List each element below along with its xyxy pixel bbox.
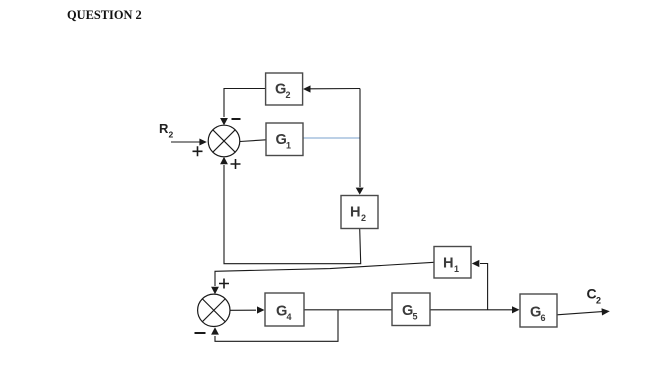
summing junction S2 [198, 294, 230, 326]
block G6 [520, 294, 557, 327]
wire G6 output to C2 [557, 312, 603, 315]
sign minus at S2 bottom input [195, 332, 206, 334]
wire vertical node X down to H2 [359, 89, 361, 188]
svg-text:H: H [443, 256, 454, 272]
arrowhead into H2 top [356, 188, 364, 195]
sign plus at S2 top input [219, 279, 229, 289]
wire from node X (x=360) left into G2 [310, 88, 360, 90]
arrowhead into H1 right [472, 260, 480, 267]
wire G1 output (blue) to node X [304, 137, 361, 139]
arrowhead output C2 [602, 308, 610, 315]
arrowhead into G4 left [257, 306, 265, 313]
svg-text:2: 2 [361, 213, 366, 223]
sign plus at S1 bottom input [231, 159, 241, 169]
wire G4 output to G5 [304, 309, 392, 311]
wire S1 to G1 [240, 140, 266, 142]
svg-text:4: 4 [287, 312, 292, 322]
block H2 [341, 196, 378, 229]
block G5 [392, 293, 430, 326]
wire H1 output left then down into S2 top [215, 262, 434, 286]
wire R2 input to summing junction S1 [171, 141, 200, 143]
sign plus at S1 left input [193, 146, 203, 156]
block G1 [266, 123, 303, 156]
summing junction S1 [208, 125, 240, 157]
svg-text:2: 2 [286, 90, 291, 100]
svg-text:2: 2 [596, 295, 601, 305]
arrowhead into S1 left [199, 139, 206, 146]
wire G5 output to G6 [430, 309, 513, 311]
arrowhead into S1 bottom [220, 157, 228, 164]
arrowhead into S1 top [220, 118, 228, 125]
svg-text:H: H [350, 205, 361, 221]
svg-text:2: 2 [169, 129, 174, 139]
wire tap up to H1 input [480, 264, 488, 310]
block H1 [434, 247, 471, 279]
svg-text:1: 1 [286, 140, 291, 150]
wire H2 output down, left, up into S1 bottom [224, 165, 361, 264]
svg-text:5: 5 [413, 311, 418, 321]
svg-text:QUESTION 2: QUESTION 2 [67, 8, 142, 22]
svg-text:6: 6 [541, 313, 546, 323]
sign minus at S1 top input [232, 118, 241, 120]
arrowhead into S2 bottom [211, 327, 219, 334]
arrowhead into G2 right [303, 85, 311, 92]
wire S2 to G4 [230, 309, 256, 311]
wire G2 feedback: G2 left to down into S1 top [224, 89, 266, 118]
wire inner feedback: tap after G4 down, left, up into S2 bottom [215, 310, 338, 342]
svg-text:R: R [159, 121, 169, 136]
arrowhead into S2 top [211, 287, 219, 294]
block G2 [266, 73, 303, 105]
svg-text:1: 1 [454, 264, 459, 274]
arrowhead into G6 left [512, 306, 520, 313]
block G4 [265, 293, 304, 326]
